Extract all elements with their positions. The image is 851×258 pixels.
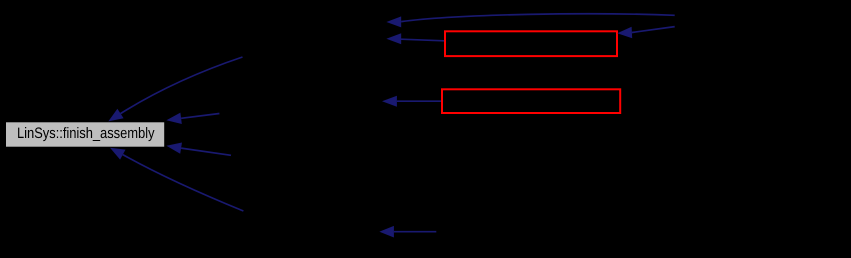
edge I: bottom horizontal arrow between hidden nodes	[379, 226, 436, 238]
edge E: curve from upper hidden node down into top of grey node	[108, 57, 242, 121]
edge F: short line into top-right corner of grey node	[166, 113, 219, 124]
node: red box 2 (truncated caller, middle)	[442, 89, 620, 113]
edge H: curve from lower hidden node up into bottom of grey node	[110, 148, 243, 211]
edge G: short line into bottom-right corner of grey node	[166, 143, 231, 156]
node: LinSys::finish_assembly (grey current node)	[6, 122, 164, 146]
edge A: long top curve from far-right node, arrowhead at upper-left	[386, 14, 674, 28]
edge B: from red box 1 left edge, arrowhead at upper-left	[386, 33, 444, 44]
node: red box 1 (truncated caller, top)	[445, 31, 617, 56]
edge D: from red box 2 left edge, arrowhead pointing left	[382, 96, 441, 107]
edge C: short curve from far-right node into red box 1 right edge	[617, 27, 675, 39]
